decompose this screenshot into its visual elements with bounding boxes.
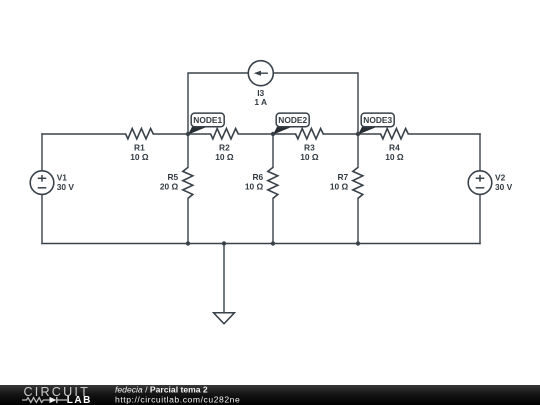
wire main rail R3 to NODE3 (323, 133, 380, 135)
svg-text:LAB: LAB (67, 395, 92, 405)
logo CircuitLab (22, 385, 92, 405)
resistor R1 (126, 129, 154, 162)
wire bottom rail (42, 243, 480, 245)
junction dot bottom rail branch3 (356, 241, 360, 245)
svg-text:10 Ω: 10 Ω (215, 152, 234, 162)
wire main rail R4 to V2 (408, 133, 480, 135)
svg-text:NODE3: NODE3 (363, 115, 392, 125)
resistor R7 (330, 167, 363, 198)
wire branch NODE1 to R5 (187, 134, 189, 167)
wire right rail top (479, 134, 481, 171)
wire current source to NODE3 (273, 73, 358, 134)
wire R7 to bottom rail (357, 198, 359, 243)
ground (214, 313, 235, 324)
resistor R5 (160, 167, 193, 198)
junction dot NODE1 main rail (186, 132, 190, 136)
svg-text:NODE2: NODE2 (278, 115, 307, 125)
voltage source V2 (468, 171, 512, 195)
svg-text:1 A: 1 A (254, 97, 267, 107)
node NODE3 (358, 113, 394, 135)
junction dot NODE3 main rail (356, 132, 360, 136)
current source I3 (248, 61, 273, 107)
svg-text:30 V: 30 V (495, 182, 513, 192)
junction dot NODE2 main rail (271, 132, 275, 136)
svg-text:NODE1: NODE1 (193, 115, 222, 125)
node NODE2 (273, 113, 309, 135)
resistor R3 (296, 129, 324, 162)
footer bar (0, 385, 540, 405)
svg-text:30 V: 30 V (57, 182, 75, 192)
svg-text:20 Ω: 20 Ω (160, 182, 179, 192)
resistor R4 (381, 129, 409, 162)
wire main rail V1 to R1 (42, 133, 126, 135)
svg-text:fedecia / Parcial tema 2: fedecia / Parcial tema 2 (115, 385, 208, 395)
svg-text:10 Ω: 10 Ω (385, 152, 404, 162)
resistor R2 (211, 129, 239, 162)
junction dot bottom rail branch2 (271, 241, 275, 245)
wire branch NODE2 to R6 (272, 134, 274, 167)
svg-text:10 Ω: 10 Ω (130, 152, 149, 162)
svg-text:R6: R6 (252, 172, 263, 182)
wire R5 to bottom rail (187, 198, 189, 243)
svg-text:10 Ω: 10 Ω (330, 182, 349, 192)
svg-text:R7: R7 (337, 172, 348, 182)
wire branch NODE1 up (188, 73, 248, 134)
wire ground stem (223, 244, 225, 313)
wire R6 to bottom rail (272, 198, 274, 243)
wire branch NODE3 to R7 (357, 134, 359, 167)
wire main rail R2 to NODE2 (238, 133, 295, 135)
svg-text:10 Ω: 10 Ω (300, 152, 319, 162)
wire left rail bottom (41, 194, 43, 243)
resistor R6 (245, 167, 278, 198)
junction dot bottom rail ground (222, 241, 226, 245)
wire right rail bottom (479, 194, 481, 243)
voltage source V1 (30, 171, 74, 195)
footer title text (115, 385, 240, 405)
junction dot bottom rail branch1 (186, 241, 190, 245)
svg-text:http://circuitlab.com/cu282ne: http://circuitlab.com/cu282ne (115, 395, 240, 405)
svg-text:R5: R5 (167, 172, 178, 182)
svg-text:10 Ω: 10 Ω (245, 182, 264, 192)
wire main rail R1 to NODE1 (153, 133, 210, 135)
wire left rail top (41, 134, 43, 171)
node NODE1 (188, 113, 224, 135)
